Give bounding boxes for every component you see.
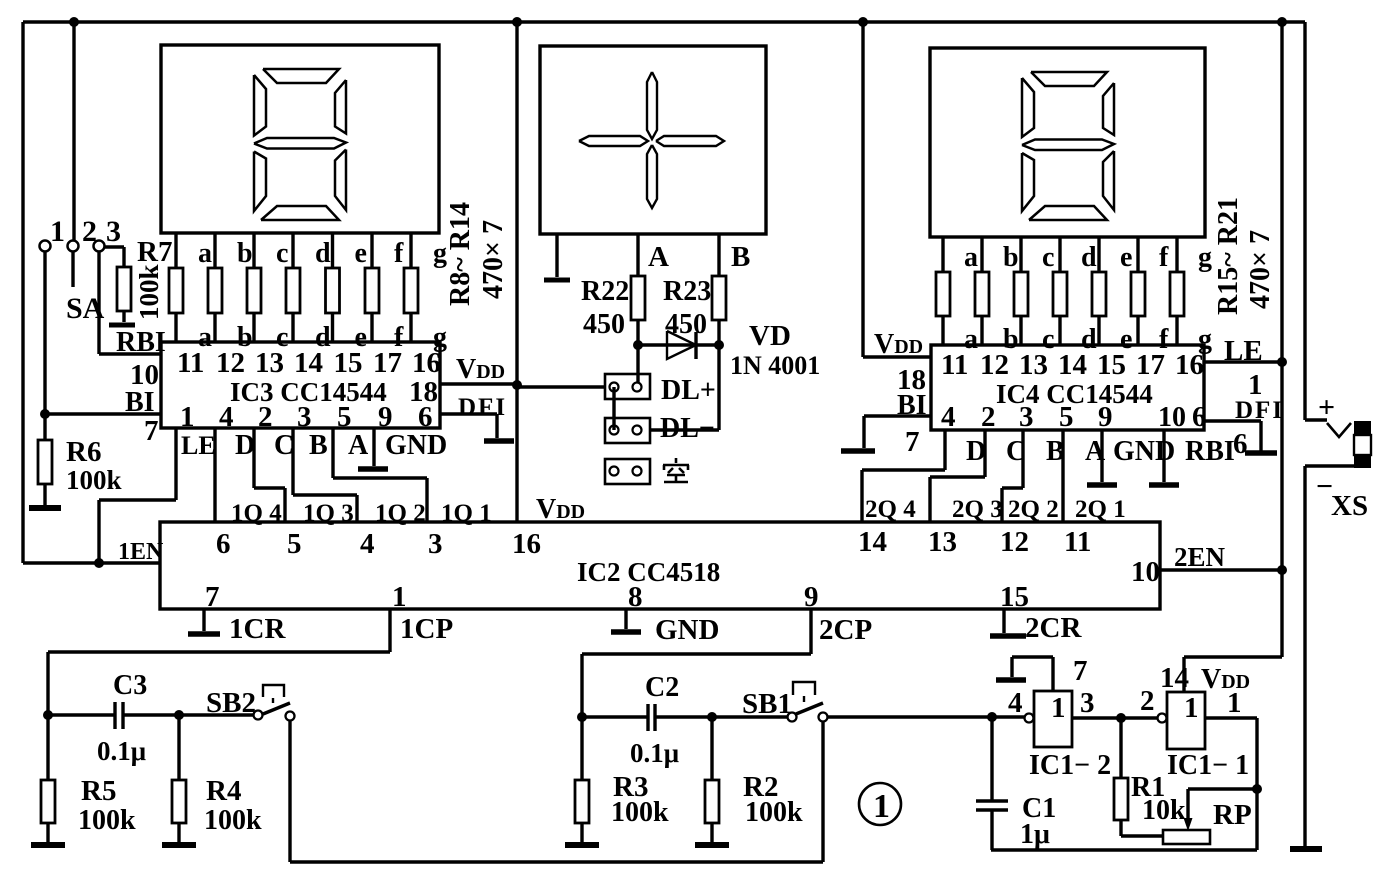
svg-text:7: 7: [1073, 655, 1088, 687]
svg-text:e: e: [1120, 242, 1132, 273]
svg-text:470× 7: 470× 7: [478, 220, 509, 299]
svg-text:B: B: [309, 430, 328, 461]
svg-text:2CP: 2CP: [819, 614, 872, 646]
svg-text:2Q 3: 2Q 3: [952, 496, 1003, 523]
svg-text:0.1μ: 0.1μ: [630, 738, 679, 768]
svg-text:e: e: [355, 238, 367, 269]
svg-text:RBI: RBI: [116, 327, 166, 358]
svg-text:15: 15: [1000, 581, 1029, 613]
svg-text:D: D: [235, 430, 255, 461]
svg-text:IC1− 1: IC1− 1: [1167, 750, 1249, 781]
svg-text:2: 2: [258, 401, 273, 433]
svg-text:IC2 CC4518: IC2 CC4518: [577, 557, 720, 587]
svg-text:XS: XS: [1331, 490, 1368, 522]
svg-text:17: 17: [1136, 349, 1165, 381]
svg-text:1Q 1: 1Q 1: [441, 500, 492, 527]
svg-text:17: 17: [373, 347, 402, 379]
svg-text:2Q 2: 2Q 2: [1008, 496, 1059, 523]
svg-text:4: 4: [941, 401, 956, 433]
svg-text:1: 1: [873, 788, 890, 825]
svg-text:R22: R22: [581, 276, 629, 307]
svg-text:1Q 3: 1Q 3: [303, 500, 354, 527]
svg-text:RBI: RBI: [1185, 436, 1235, 467]
svg-text:14: 14: [1160, 662, 1189, 694]
svg-text:7: 7: [205, 581, 220, 613]
svg-text:9: 9: [804, 581, 819, 613]
svg-text:A: A: [348, 430, 369, 461]
svg-text:a: a: [198, 238, 212, 269]
svg-text:12: 12: [980, 349, 1009, 381]
svg-text:5: 5: [287, 528, 302, 560]
svg-text:1CR: 1CR: [229, 613, 286, 645]
svg-text:RP: RP: [1213, 799, 1252, 831]
svg-text:SB2: SB2: [206, 687, 256, 719]
svg-text:16: 16: [512, 528, 541, 560]
svg-text:16: 16: [1175, 349, 1204, 381]
svg-text:2: 2: [981, 401, 996, 433]
svg-text:VD: VD: [749, 320, 791, 352]
svg-text:10: 10: [1131, 556, 1160, 588]
svg-text:b: b: [237, 238, 253, 269]
svg-text:1Q 2: 1Q 2: [375, 500, 426, 527]
svg-text:100k: 100k: [745, 797, 803, 828]
svg-text:f: f: [394, 238, 404, 269]
svg-text:1: 1: [392, 581, 407, 613]
svg-text:R7: R7: [137, 236, 172, 268]
svg-text:g: g: [1198, 242, 1212, 273]
svg-text:3: 3: [1019, 401, 1034, 433]
svg-text:LE: LE: [1224, 335, 1263, 367]
svg-text:1μ: 1μ: [1020, 819, 1050, 850]
svg-text:16: 16: [412, 347, 441, 379]
svg-text:3: 3: [428, 528, 443, 560]
svg-text:c: c: [276, 238, 288, 269]
svg-text:R23: R23: [663, 276, 711, 307]
svg-text:450: 450: [583, 309, 625, 340]
svg-text:100k: 100k: [611, 797, 669, 828]
svg-text:2Q 1: 2Q 1: [1075, 496, 1126, 523]
svg-text:13: 13: [928, 526, 957, 558]
svg-text:DL+: DL+: [661, 375, 716, 406]
svg-text:10: 10: [1158, 402, 1186, 433]
svg-text:0.1μ: 0.1μ: [97, 736, 146, 766]
svg-text:C: C: [1006, 436, 1026, 467]
svg-text:450: 450: [665, 309, 707, 340]
svg-text:A: A: [648, 241, 669, 273]
svg-text:LE: LE: [181, 431, 216, 460]
svg-text:SA: SA: [66, 292, 105, 325]
svg-text:2CR: 2CR: [1025, 612, 1082, 644]
svg-text:DFI: DFI: [458, 394, 507, 421]
svg-text:c: c: [1042, 242, 1054, 273]
svg-text:4: 4: [1008, 687, 1023, 719]
svg-text:1: 1: [1184, 692, 1199, 724]
svg-text:7: 7: [144, 415, 159, 447]
svg-text:11: 11: [941, 349, 968, 381]
svg-text:BI: BI: [125, 387, 155, 418]
svg-text:IC1− 2: IC1− 2: [1029, 750, 1111, 781]
svg-text:100k: 100k: [134, 264, 164, 320]
svg-text:1CP: 1CP: [400, 613, 453, 645]
svg-text:5: 5: [337, 401, 352, 433]
svg-text:C3: C3: [113, 670, 147, 701]
svg-text:R5: R5: [81, 775, 116, 807]
svg-text:D: D: [966, 436, 986, 467]
svg-text:3: 3: [1080, 687, 1095, 719]
svg-text:6: 6: [1233, 428, 1248, 460]
svg-text:1EN: 1EN: [118, 539, 164, 565]
svg-text:4: 4: [360, 528, 375, 560]
svg-text:5: 5: [1059, 401, 1074, 433]
svg-text:7: 7: [905, 426, 920, 458]
svg-text:11: 11: [177, 347, 204, 379]
svg-text:100k: 100k: [66, 465, 122, 495]
svg-text:d: d: [1081, 242, 1097, 273]
svg-text:GND: GND: [1113, 436, 1175, 467]
svg-text:2: 2: [82, 215, 97, 248]
svg-text:3: 3: [297, 401, 312, 433]
svg-text:9: 9: [378, 401, 393, 433]
svg-text:12: 12: [1000, 526, 1029, 558]
svg-text:R15~ R21: R15~ R21: [1213, 197, 1244, 315]
svg-text:+: +: [1318, 391, 1335, 424]
svg-text:2Q 4: 2Q 4: [865, 496, 916, 523]
svg-text:13: 13: [255, 347, 284, 379]
svg-text:B: B: [1046, 436, 1065, 467]
svg-text:GND: GND: [385, 430, 447, 461]
svg-text:1N 4001: 1N 4001: [730, 351, 820, 380]
svg-text:14: 14: [858, 526, 887, 558]
svg-text:SB1: SB1: [742, 688, 792, 720]
svg-text:15: 15: [334, 347, 363, 379]
svg-text:DL−: DL−: [660, 413, 715, 444]
svg-text:9: 9: [1098, 401, 1113, 433]
svg-text:B: B: [731, 241, 750, 273]
svg-text:100k: 100k: [78, 805, 136, 836]
svg-text:8: 8: [628, 581, 643, 613]
svg-text:100k: 100k: [204, 805, 262, 836]
svg-text:GND: GND: [655, 614, 719, 646]
svg-text:14: 14: [1058, 349, 1087, 381]
svg-text:6: 6: [1192, 401, 1207, 433]
svg-text:DFI: DFI: [1235, 397, 1284, 424]
svg-text:1: 1: [1227, 687, 1242, 719]
svg-text:6: 6: [216, 528, 231, 560]
svg-text:14: 14: [294, 347, 323, 379]
svg-text:10k: 10k: [1142, 795, 1186, 826]
svg-text:1Q 4: 1Q 4: [231, 500, 282, 527]
svg-text:12: 12: [216, 347, 245, 379]
svg-text:A: A: [1085, 436, 1106, 467]
svg-text:1: 1: [1051, 692, 1066, 724]
svg-text:2: 2: [1140, 685, 1155, 717]
svg-text:a: a: [964, 242, 978, 273]
svg-text:R4: R4: [206, 775, 241, 807]
svg-text:6: 6: [418, 401, 433, 433]
svg-text:1: 1: [50, 215, 65, 248]
svg-text:470× 7: 470× 7: [1245, 230, 1276, 309]
svg-text:b: b: [1003, 242, 1019, 273]
svg-text:13: 13: [1019, 349, 1048, 381]
svg-text:d: d: [315, 238, 331, 269]
svg-text:11: 11: [1064, 526, 1091, 558]
svg-text:3: 3: [106, 215, 121, 248]
svg-text:15: 15: [1097, 349, 1126, 381]
svg-text:C2: C2: [645, 672, 679, 703]
svg-text:R6: R6: [66, 436, 101, 468]
svg-text:f: f: [1159, 242, 1169, 273]
svg-text:2EN: 2EN: [1174, 542, 1226, 572]
svg-text:C: C: [274, 430, 294, 461]
svg-text:4: 4: [219, 401, 234, 433]
svg-text:1: 1: [180, 401, 195, 433]
svg-text:R8~ R14: R8~ R14: [445, 202, 476, 306]
